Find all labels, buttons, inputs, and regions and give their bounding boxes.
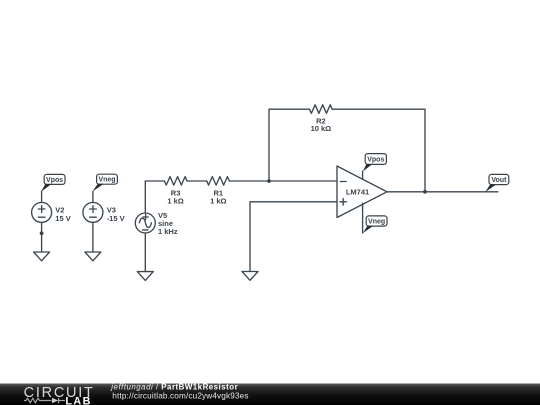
svg-text:Vpos: Vpos (367, 157, 384, 164)
svg-text:Vout: Vout (491, 177, 507, 184)
svg-text:1 kΩ: 1 kΩ (210, 196, 226, 205)
svg-text:Vneg: Vneg (98, 177, 115, 184)
svg-text:Vneg: Vneg (368, 219, 385, 226)
svg-text:jefftungadi / PartBW1kResistor: jefftungadi / PartBW1kResistor (110, 383, 238, 392)
svg-text:10 kΩ: 10 kΩ (311, 124, 332, 133)
svg-text:1 kΩ: 1 kΩ (167, 196, 183, 205)
svg-text:Vpos: Vpos (46, 177, 63, 184)
svg-text:http://circuitlab.com/cu2yw4vg: http://circuitlab.com/cu2yw4vgk93es (112, 391, 248, 400)
svg-text:-15 V: -15 V (107, 214, 125, 223)
svg-text:15 V: 15 V (55, 214, 70, 223)
svg-text:LM741: LM741 (346, 187, 369, 196)
svg-text:1 kHz: 1 kHz (158, 227, 178, 236)
svg-text:LAB: LAB (65, 395, 91, 405)
